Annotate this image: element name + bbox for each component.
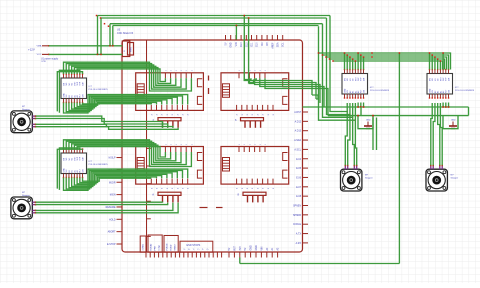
svg-text:A1: A1	[73, 170, 76, 172]
svg-text:M1: M1	[69, 83, 71, 86]
svg-text:SCL: SCL	[283, 42, 285, 47]
svg-text:CNC Shield V3: CNC Shield V3	[117, 32, 134, 35]
svg-text:GND.: GND.	[256, 244, 258, 250]
svg-text:POLOLU-DRV8825: POLOLU-DRV8825	[89, 164, 109, 166]
svg-text:M0: M0	[66, 83, 68, 86]
svg-text:RESUME: RESUME	[106, 207, 116, 209]
svg-text:E.08: E.08	[296, 196, 301, 198]
svg-text:M2: M2	[72, 83, 74, 86]
svg-text:5V.: 5V.	[245, 247, 247, 251]
svg-text:E.07: E.07	[296, 187, 301, 189]
svg-text:M1: M1	[350, 78, 352, 81]
svg-text:GND: GND	[366, 120, 371, 122]
svg-text:U?B: U?B	[42, 61, 47, 63]
svg-text:A2: A2	[357, 91, 360, 93]
svg-text:A.SCL: A.SCL	[294, 148, 301, 151]
svg-text:B2: B2	[69, 95, 71, 97]
svg-text:PONCE: PONCE	[166, 243, 168, 251]
svg-text:M2: M2	[72, 158, 74, 161]
svg-text:VCC: VCC	[37, 54, 42, 56]
svg-text:A.RST: A.RST	[294, 111, 301, 114]
svg-text:B1: B1	[353, 91, 355, 93]
svg-text:END STOPS: END STOPS	[187, 244, 201, 247]
svg-text:RUNA2: RUNA2	[149, 243, 152, 251]
svg-text:M2: M2	[438, 78, 440, 81]
svg-text:Stepper: Stepper	[451, 177, 459, 180]
svg-text:GND: GND	[251, 245, 253, 250]
svg-text:M0: M0	[66, 158, 68, 161]
svg-text:VM: VM	[432, 90, 434, 93]
svg-text:COOLE: COOLE	[293, 224, 302, 226]
svg-text:A: A	[152, 192, 154, 196]
svg-text:E.05: E.05	[296, 168, 301, 170]
svg-text:Y+: Y+	[197, 249, 199, 251]
svg-text:B2: B2	[435, 91, 437, 93]
svg-text:A.D13: A.D13	[295, 130, 302, 133]
svg-text:5V: 5V	[229, 247, 231, 250]
svg-text:A2: A2	[76, 170, 79, 172]
svg-text:Stepper: Stepper	[365, 177, 373, 180]
svg-text:D13: D13	[241, 42, 243, 47]
svg-text:A1: A1	[354, 91, 357, 93]
svg-text:Z+: Z+	[207, 249, 209, 251]
svg-text:RST: RST	[234, 245, 236, 250]
svg-text:POLOLU-DRV8825: POLOLU-DRV8825	[370, 90, 390, 92]
svg-text:SDA: SDA	[277, 42, 280, 47]
svg-text:A1: A1	[73, 95, 76, 97]
svg-text:+12V: +12V	[28, 48, 35, 52]
svg-text:A.TX: A.TX	[296, 233, 302, 236]
svg-text:M0: M0	[347, 78, 349, 81]
svg-text:E.04: E.04	[296, 159, 301, 161]
svg-text:VIN: VIN	[261, 246, 263, 250]
svg-text:GND: GND	[344, 88, 346, 93]
svg-text:A.SDA: A.SDA	[294, 139, 301, 142]
svg-text:VM: VM	[66, 94, 68, 97]
svg-text:PPM: PPM	[154, 246, 156, 251]
svg-text:GND: GND	[231, 42, 233, 47]
svg-text:M1: M1	[435, 78, 437, 81]
svg-text:B1: B1	[72, 170, 74, 172]
svg-text:D10: D10	[257, 42, 259, 47]
svg-text:M.DIR: M.DIR	[109, 182, 116, 184]
svg-text:M1: M1	[69, 158, 71, 161]
svg-text:AREF: AREF	[271, 42, 274, 49]
svg-text:Stepper: Stepper	[22, 194, 30, 197]
svg-text:A.D12: A.D12	[295, 120, 302, 123]
svg-text:Stepper: Stepper	[22, 108, 30, 111]
svg-text:M0: M0	[432, 78, 434, 81]
svg-text:PWR: PWR	[131, 47, 133, 52]
svg-text:M2: M2	[353, 78, 355, 81]
svg-text:POLOLU-DRV8825: POLOLU-DRV8825	[89, 89, 109, 91]
svg-text:B1: B1	[72, 95, 74, 97]
svg-text:GND: GND	[63, 168, 65, 173]
svg-text:SPNDR: SPNDR	[293, 215, 301, 217]
svg-text:U1 power supply: U1 power supply	[41, 57, 59, 60]
svg-text:E.06: E.06	[296, 177, 301, 179]
svg-text:VIN: VIN	[236, 42, 238, 46]
svg-text:ROND: ROND	[170, 244, 172, 250]
svg-text:X+: X+	[188, 249, 190, 251]
svg-text:GND: GND	[429, 88, 431, 93]
svg-text:GND: GND	[63, 93, 65, 98]
svg-text:5V: 5V	[226, 42, 228, 45]
svg-text:VM: VM	[347, 90, 349, 93]
svg-text:A2: A2	[76, 95, 79, 97]
svg-text:A2: A2	[442, 91, 445, 93]
svg-text:VM: VM	[66, 169, 68, 172]
svg-text:3V3: 3V3	[240, 246, 242, 251]
svg-text:A1: A1	[439, 91, 442, 93]
svg-text:VMA: VMA	[37, 45, 42, 48]
svg-text:HOLD: HOLD	[109, 219, 116, 221]
svg-text:GND: GND	[451, 120, 456, 122]
svg-text:B2: B2	[350, 91, 352, 93]
svg-text:ABORT: ABORT	[108, 231, 116, 234]
svg-text:SWMJ: SWMJ	[174, 245, 176, 251]
svg-text:M.SLP: M.SLP	[109, 158, 116, 160]
svg-text:B2: B2	[69, 170, 71, 172]
svg-text:E-STOP: E-STOP	[107, 244, 116, 246]
svg-text:B1: B1	[438, 91, 440, 93]
svg-text:SPNEN: SPNEN	[293, 206, 301, 208]
svg-text:M.EN: M.EN	[110, 195, 116, 197]
svg-text:bridge: bridge	[158, 244, 160, 250]
svg-text:A.RX: A.RX	[296, 242, 302, 245]
svg-text:eGRBL: eGRBL	[143, 243, 145, 250]
svg-text:POLOLU-DRV8825: POLOLU-DRV8825	[455, 90, 475, 92]
